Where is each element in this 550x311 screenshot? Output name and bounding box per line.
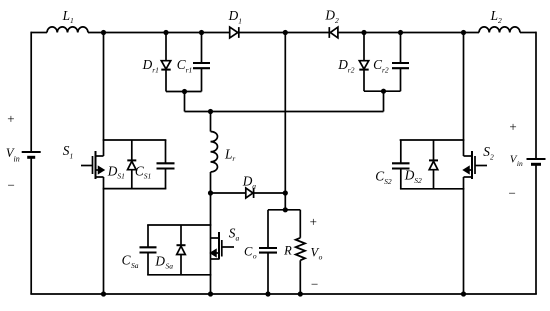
svg-text:−: − [509,185,516,200]
node top Cr1 [199,30,204,35]
battery Vin right [527,159,546,164]
node bottom Sa [208,291,213,296]
svg-text:−: − [311,277,318,292]
inductor L2 [479,27,520,33]
node top Cr2 [398,30,403,35]
svg-text:L1: L1 [62,8,74,25]
inductor L1 [47,27,88,33]
node top S1 [101,30,106,35]
svg-text:Dr2: Dr2 [337,57,355,74]
transistor S2 [464,151,488,179]
wire snubber box Sa bottom [148,274,211,276]
wire snubber box S2 bottom [401,188,464,190]
node join right [381,89,386,94]
wire right edge lower [535,164,537,294]
svg-text:−: − [8,177,15,192]
svg-text:+: + [7,111,14,126]
transistor Sa [211,193,235,294]
svg-text:CSa: CSa [122,252,139,269]
svg-text:S2: S2 [483,144,494,161]
svg-text:CS2: CS2 [375,169,392,186]
svg-text:Vin: Vin [510,153,523,168]
svg-text:Vo: Vo [311,246,323,262]
capacitor Co [259,210,277,294]
svg-text:DS1: DS1 [107,164,125,181]
svg-text:+: + [509,119,516,134]
wire snubber box S1 bottom [104,188,166,190]
node Lr top [208,109,213,114]
wire top left [31,32,47,34]
capacitor CS1 [157,140,175,189]
diode D2 [329,27,338,38]
svg-text:Dr1: Dr1 [142,57,159,74]
svg-text:D1: D1 [228,8,242,25]
transistor S1 [81,151,104,179]
svg-text:R: R [283,243,292,257]
wire Dr2-Cr2 join [364,90,401,92]
diode Dr2 [359,33,368,92]
node bottom S1 [101,291,106,296]
diode DS2 [429,140,438,189]
svg-text:Co: Co [244,244,257,260]
diode DSa [177,225,186,275]
wire top middle [239,32,329,34]
node top S2 [461,30,466,35]
diode Da [211,188,286,198]
wire resonant rail [185,111,384,113]
wire S1 source [103,177,105,294]
capacitor CS2 [392,140,410,189]
svg-text:+: + [310,214,317,229]
svg-text:Da: Da [242,174,257,191]
wire output rail [268,209,300,211]
node bottom Co [265,291,270,296]
inductor Lr [211,112,218,194]
node top Dr2 [361,30,366,35]
node join left [182,89,187,94]
wire snubber box S1 top [104,139,166,141]
capacitor CSa [140,225,157,275]
node Da cathode [283,190,288,195]
node output rail [283,207,288,212]
svg-text:CS1: CS1 [135,164,151,181]
wire snubber box Sa top [148,224,211,226]
svg-text:Vin: Vin [6,146,20,164]
wire top right [520,32,536,34]
svg-text:S1: S1 [63,143,73,160]
node Lr bottom [208,190,213,195]
svg-text:D2: D2 [324,8,339,25]
wire top middle-right [338,32,479,34]
wire left edge lower [30,157,32,294]
svg-text:Lr: Lr [224,147,235,164]
svg-text:Cr1: Cr1 [177,57,193,74]
wire bottom [31,293,536,295]
wire snubber box S2 top [401,139,464,141]
wire right edge upper [535,32,537,159]
svg-text:L2: L2 [490,8,502,25]
wire S2 source [463,177,465,294]
svg-text:Sa: Sa [229,225,240,242]
battery Vin left [22,152,41,157]
svg-text:Cr2: Cr2 [373,57,389,74]
wire drop to resonant rail right [383,91,385,111]
diode DS1 [127,140,136,189]
capacitor Cr2 [392,33,409,92]
svg-text:DSa: DSa [154,253,173,270]
wire Dr1-Cr1 join [166,91,202,93]
svg-text:DS2: DS2 [404,168,422,185]
node bottom S2 [461,291,466,296]
resistor R [296,210,305,294]
wire output drop [284,193,286,210]
diode D1 [230,27,239,38]
wire middle vertical [284,33,286,194]
wire S1 drain [103,33,105,157]
node bottom R [298,291,303,296]
wire top middle-left [88,32,230,34]
wire drop to resonant rail left [184,92,186,112]
wire left edge upper [30,32,32,152]
wire S2 drain [463,33,465,157]
capacitor Cr1 [193,33,210,92]
diode Dr1 [161,33,170,92]
node top Dr1 [163,30,168,35]
node top middle [283,30,288,35]
